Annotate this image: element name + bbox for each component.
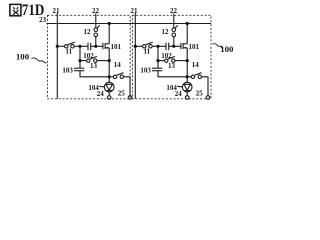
- switch 14: [113, 75, 116, 78]
- svg-text:101: 101: [111, 43, 122, 51]
- wire: switch 11 feed (right): [135, 45, 142, 47]
- wire: power rail from terminal 23 across both blocks: [47, 23, 212, 25]
- svg-text:102: 102: [83, 52, 94, 60]
- wire: switch 14 feed (right): [187, 76, 191, 78]
- figure label 図71D: [10, 4, 21, 15]
- svg-text:100: 100: [16, 51, 30, 61]
- svg-text:102: 102: [161, 52, 172, 60]
- light emitter 104 (right): [182, 82, 192, 92]
- svg-text:13: 13: [90, 62, 98, 70]
- svg-text:12: 12: [84, 28, 92, 36]
- junction node: rail / transistor (right): [186, 22, 189, 25]
- leader from label 104: [99, 85, 104, 88]
- terminal 25 circle (right): [206, 96, 210, 100]
- wire: switch 13 to column: [97, 60, 109, 62]
- wire: switch 12 to node B: [95, 37, 97, 47]
- leader squiggle to left block: [32, 58, 47, 63]
- wire: capacitor 103 bottom to row 3 (right): [158, 71, 187, 77]
- junction node: rail / transistor (left): [108, 22, 111, 25]
- junction node row3 (right): [186, 75, 189, 78]
- capacitor 103 (right): [157, 61, 159, 69]
- wire: transistor drain down the column (right): [186, 48, 188, 83]
- dashed enclosure left block: [48, 15, 131, 99]
- wire: transistor drain down the column: [108, 48, 110, 83]
- wire: switch 11 to node A (right): [152, 45, 166, 47]
- junction node A (right): [156, 45, 159, 48]
- junction node: bus / row1 (right): [134, 45, 137, 48]
- junction node row2 left (left): [78, 59, 81, 62]
- switch 13 (right): [165, 59, 168, 62]
- terminal 24 circle (right): [185, 96, 189, 100]
- switch 12: [94, 28, 98, 32]
- wire: scan bus from terminal 21 (right): [134, 13, 136, 99]
- svg-text:12: 12: [162, 28, 170, 36]
- wire: terminal 22 stub down to switch 12: [95, 13, 97, 28]
- junction node B (left): [94, 45, 97, 48]
- capacitor 103: [79, 61, 81, 69]
- svg-text:14: 14: [192, 61, 200, 69]
- svg-text:24: 24: [97, 90, 105, 98]
- wire: node A drop (right): [157, 46, 159, 60]
- wire: emitter to terminal 24: [108, 92, 110, 96]
- transistor 101: [102, 43, 104, 49]
- junction node row2 right (right): [186, 59, 189, 62]
- svg-text:24: 24: [175, 90, 183, 98]
- wire: scan bus from terminal 21 (left): [56, 13, 58, 99]
- svg-text:11: 11: [143, 47, 150, 55]
- wire: node A drop: [79, 46, 81, 60]
- wire: capacitor 103 bottom to row 3: [80, 71, 109, 77]
- wire: emitter to terminal 24 (right): [186, 92, 188, 96]
- svg-text:101: 101: [189, 43, 200, 51]
- wire: switch 12 to node B (right): [173, 37, 175, 47]
- transistor 101 (right): [180, 43, 182, 49]
- wire: capacitor 102 to node B: [91, 45, 103, 47]
- wire: switch 14 feed: [109, 76, 113, 78]
- svg-text:23: 23: [39, 16, 47, 24]
- wire: transistor source to rail: [108, 24, 110, 44]
- wire: switch 14 to terminal 25: [124, 77, 131, 96]
- wire: row 2 left: [80, 60, 87, 62]
- switch 12 (right): [172, 28, 176, 32]
- wire: switch 14 to terminal 25 (right): [202, 77, 209, 96]
- wire: switch 11 to node A: [74, 45, 88, 47]
- wire: switch 11 feed: [57, 45, 64, 47]
- wire: row 2 left (right): [158, 60, 165, 62]
- capacitor 102: [87, 43, 89, 51]
- svg-text:25: 25: [196, 89, 204, 97]
- dashed enclosure right block: [132, 15, 211, 99]
- junction node A (left): [78, 45, 81, 48]
- svg-text:25: 25: [118, 89, 126, 97]
- junction node: bus / row1 (left): [56, 45, 59, 48]
- capacitor 102 (right): [165, 43, 167, 51]
- junction node row3 (left): [108, 75, 111, 78]
- svg-text:11: 11: [65, 47, 72, 55]
- terminal 25 circle: [128, 96, 132, 100]
- switch 13: [87, 59, 90, 62]
- leader from label 104 (right): [177, 85, 182, 88]
- svg-text:103: 103: [62, 66, 73, 74]
- svg-text:100: 100: [220, 44, 234, 54]
- light emitter 104: [104, 82, 114, 92]
- wire: switch 13 to column (right): [175, 60, 187, 62]
- switch 14 (right): [191, 75, 194, 78]
- terminal 24 circle: [107, 96, 111, 100]
- svg-text:13: 13: [168, 62, 176, 70]
- switch 11: [65, 45, 68, 48]
- junction node B (right): [172, 45, 175, 48]
- switch 11 (right): [143, 45, 146, 48]
- junction node row2 right (left): [108, 59, 111, 62]
- svg-text:103: 103: [140, 66, 151, 74]
- svg-text:21: 21: [131, 7, 139, 15]
- svg-text:14: 14: [114, 61, 122, 69]
- wire: terminal 22 stub down to switch 12 (right): [173, 13, 175, 28]
- wire: capacitor 102 to node B (right): [169, 45, 181, 47]
- leader squiggle to right block: [213, 44, 222, 49]
- svg-text:21: 21: [53, 7, 61, 15]
- wire: transistor source to rail (right): [186, 24, 188, 44]
- junction node row2 left (right): [156, 59, 159, 62]
